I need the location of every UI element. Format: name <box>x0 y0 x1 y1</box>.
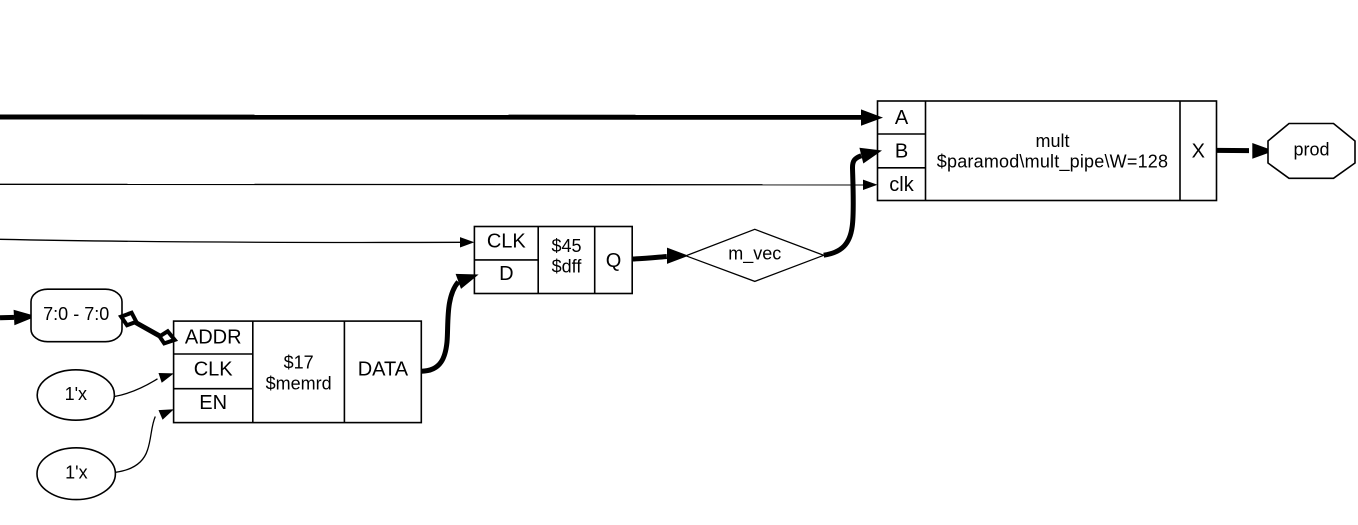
wire Q to m_vec <box>632 248 688 264</box>
svg-text:$paramod\mult_pipe\W=128: $paramod\mult_pipe\W=128 <box>937 151 1168 172</box>
svg-text:Q: Q <box>606 250 622 272</box>
wire 1'x to $memrd EN <box>115 409 173 472</box>
label $17 $memrd <box>266 352 332 393</box>
svg-text:mult: mult <box>1035 131 1069 151</box>
output port prod <box>1268 124 1355 179</box>
svg-text:B: B <box>895 141 908 163</box>
svg-text:EN: EN <box>199 392 227 414</box>
svg-text:prod: prod <box>1293 139 1329 159</box>
svg-text:1'x: 1'x <box>65 462 87 482</box>
svg-text:clk: clk <box>889 174 914 196</box>
cell mult $paramod <box>878 101 1217 201</box>
wire 1'x to $memrd CLK <box>115 373 174 397</box>
wire m_vec to mult B <box>824 148 882 255</box>
label mult $paramod\mult_pipe\W=128 <box>937 131 1168 172</box>
wire into slice node <box>0 310 37 325</box>
svg-text:X: X <box>1192 140 1205 162</box>
svg-text:7:0 - 7:0: 7:0 - 7:0 <box>43 304 109 324</box>
wire X to prod <box>1217 143 1275 159</box>
constant 1'x (to CLK) <box>37 370 114 420</box>
svg-text:$17: $17 <box>284 352 314 372</box>
cell $17 $memrd <box>174 321 422 423</box>
svg-text:CLK: CLK <box>487 231 527 253</box>
svg-text:1'x: 1'x <box>65 384 87 404</box>
svg-text:$memrd: $memrd <box>266 373 332 393</box>
constant 1'x (to EN) <box>37 448 115 500</box>
svg-text:DATA: DATA <box>358 359 409 381</box>
svg-text:ADDR: ADDR <box>185 327 242 349</box>
svg-text:D: D <box>499 263 513 285</box>
wire slice to ADDR (odiamond ends) <box>121 313 175 344</box>
label $45 $dff <box>551 236 582 276</box>
wire to $dff CLK <box>0 237 474 247</box>
wire A (bus into mult port A) <box>0 109 883 125</box>
svg-text:A: A <box>895 107 909 129</box>
wire DATA to $dff D <box>421 274 478 371</box>
svg-text:CLK: CLK <box>194 359 234 381</box>
node slice 7:0 - 7:0 <box>31 289 122 342</box>
svg-text:m_vec: m_vec <box>728 243 781 264</box>
svg-text:$dff: $dff <box>552 256 583 276</box>
svg-text:$45: $45 <box>551 236 581 256</box>
wire clk (into mult port clk) <box>0 180 878 190</box>
cell $45 $dff <box>474 227 632 294</box>
net m_vec <box>686 229 824 281</box>
